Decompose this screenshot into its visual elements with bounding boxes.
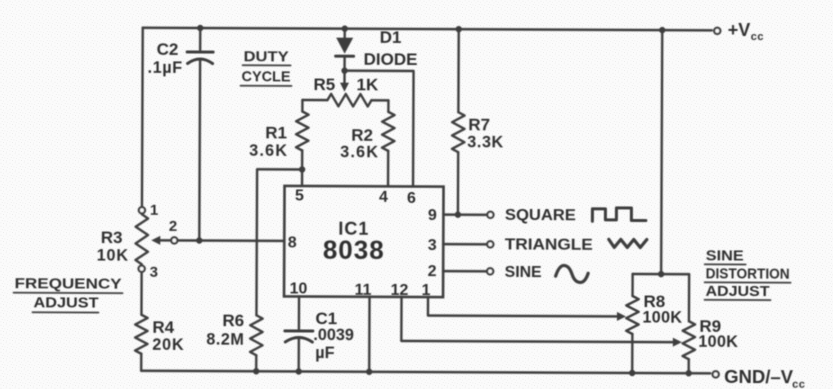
svg-text:cc: cc: [751, 31, 764, 43]
svg-text:1: 1: [422, 282, 431, 299]
svg-text:DUTY: DUTY: [244, 48, 289, 65]
junction D1 / pin-6 wire: [341, 67, 347, 73]
terminal TRIANGLE output: [487, 241, 493, 247]
svg-text:R6: R6: [222, 311, 244, 330]
junction R8 / GND rail: [629, 370, 635, 376]
wire pin 10 to C1: [298, 296, 301, 329]
svg-text:5: 5: [295, 187, 304, 204]
terminal R3 pin 3: [139, 266, 145, 272]
svg-text:8038: 8038: [323, 235, 385, 265]
wire pin 2 to SINE terminal: [443, 270, 486, 273]
svg-text:R4: R4: [152, 318, 174, 337]
svg-text:R5: R5: [313, 75, 335, 94]
wire D1 node to pin 6: [344, 71, 414, 186]
wire C1 to GND rail: [297, 338, 300, 371]
svg-text:ADJUST: ADJUST: [706, 284, 770, 300]
resistor R7: [452, 112, 465, 152]
waveform icon triangle: [609, 239, 647, 247]
svg-text:1K: 1K: [356, 75, 379, 94]
svg-text:CYCLE: CYCLE: [241, 68, 290, 85]
svg-text:2: 2: [169, 218, 177, 235]
svg-text:3: 3: [428, 237, 437, 254]
junction C2 / pin-8 wire: [196, 237, 202, 243]
svg-text:+V: +V: [728, 20, 751, 40]
svg-text:R1: R1: [265, 123, 287, 142]
svg-text:SQUARE: SQUARE: [505, 207, 576, 224]
svg-text:12: 12: [391, 282, 409, 299]
wire pin 9 to SQUARE terminal: [443, 213, 486, 216]
terminal +Vcc: [714, 28, 720, 34]
svg-text:SINE: SINE: [505, 264, 542, 281]
junction C1 / GND rail: [295, 368, 301, 374]
wire R2 to pin 4: [387, 151, 390, 186]
svg-text:10K: 10K: [97, 247, 129, 265]
junction R9 / GND rail: [685, 370, 691, 376]
junction top rail / C2: [197, 25, 203, 31]
svg-text:100K: 100K: [642, 309, 682, 327]
svg-text:GND/–V: GND/–V: [724, 366, 794, 387]
wiper arrow R5: [343, 71, 345, 83]
terminal R3 pin 2: [171, 237, 177, 243]
wire R7 to pin-9 wire: [457, 152, 460, 214]
wiper arrow R8: [617, 312, 626, 321]
junction top rail / R7: [456, 26, 462, 32]
svg-text:.1µF: .1µF: [148, 59, 183, 77]
wire C2 to R3 wiper node: [198, 60, 201, 241]
resistor R9: [683, 321, 696, 359]
svg-text:100K: 100K: [698, 333, 738, 351]
wiper arrow R9: [673, 338, 682, 347]
wire R4 to GND rail: [140, 354, 142, 371]
wire bar to R8: [631, 274, 633, 296]
svg-text:cc: cc: [792, 379, 805, 389]
svg-text:µF: µF: [315, 344, 334, 362]
svg-text:R2: R2: [351, 126, 373, 145]
junction right rail / R8 R9 bar: [658, 271, 664, 277]
waveform icon square: [592, 208, 646, 222]
wire node to R6: [256, 169, 302, 315]
svg-text:8: 8: [288, 234, 297, 251]
terminal SQUARE output: [487, 212, 493, 218]
wire R8-R9 top bar: [633, 273, 689, 276]
wire node to pin 5: [301, 169, 303, 185]
resistor R3: [135, 214, 148, 264]
wire R9 to GND rail: [687, 359, 689, 373]
terminal R3 pin 1: [139, 207, 145, 213]
wire R1 to pin5 node: [301, 150, 303, 169]
capacitor C2: [187, 50, 213, 53]
capacitor C1: [285, 329, 313, 332]
wire right rail: [661, 30, 662, 274]
junction R6 / GND rail: [253, 368, 259, 374]
wire pin 11 to GND rail: [368, 297, 371, 372]
junction pin 11 / GND rail: [366, 369, 372, 375]
wire left rail: [141, 28, 144, 206]
svg-text:D1: D1: [380, 28, 402, 47]
diode D1: [336, 38, 353, 54]
resistor R1: [296, 111, 309, 150]
svg-text:R3: R3: [101, 228, 123, 247]
svg-text:9: 9: [428, 207, 437, 224]
wire R5 left to R1: [301, 100, 303, 111]
op-amp IC1 8038 body: [284, 186, 443, 297]
svg-text:3.6K: 3.6K: [340, 143, 379, 161]
resistor R8: [626, 296, 639, 334]
wire R3 pin3 to R4: [140, 273, 143, 315]
svg-text:20K: 20K: [152, 336, 184, 354]
wire top rail to D1 anode: [344, 29, 346, 38]
waveform icon sine: [556, 265, 589, 282]
junction top rail / D1: [342, 25, 348, 31]
wire top rail to C2: [199, 28, 201, 50]
svg-text:3.6K: 3.6K: [249, 142, 288, 160]
terminal SINE output: [487, 268, 493, 274]
wire pin 1 to R8 wiper: [428, 297, 617, 316]
junction R7 / pin 9 wire: [455, 211, 461, 217]
terminal GND/-Vcc: [713, 371, 719, 377]
wire R5 right to R2: [387, 100, 389, 111]
svg-text:TRIANGLE: TRIANGLE: [505, 236, 593, 253]
wire bottom GND rail: [141, 371, 710, 374]
svg-text:R7: R7: [468, 115, 490, 134]
resistor R5: [302, 99, 327, 102]
svg-text:3: 3: [150, 264, 158, 281]
junction R1 / R6 / pin 5: [299, 166, 305, 172]
svg-text:DISTORTION: DISTORTION: [706, 266, 790, 282]
svg-text:SINE: SINE: [706, 248, 744, 264]
resistor R4: [135, 315, 148, 354]
wire +Vcc top rail: [143, 28, 712, 31]
wire top rail to R7: [457, 29, 460, 112]
junction top rail / right rail: [659, 27, 665, 33]
svg-text:4: 4: [379, 189, 388, 206]
wire pin 3 to TRIANGLE terminal: [443, 243, 486, 246]
svg-text:3.3K: 3.3K: [467, 133, 504, 151]
wire R6 to GND rail: [255, 355, 257, 371]
svg-text:6: 6: [407, 190, 416, 207]
svg-text:2: 2: [428, 263, 437, 280]
svg-text:ADJUST: ADJUST: [33, 295, 98, 311]
wire pin 12 to R9 wiper: [401, 297, 672, 342]
svg-text:10: 10: [290, 280, 308, 297]
svg-text:1: 1: [150, 202, 158, 219]
svg-text:8.2M: 8.2M: [206, 331, 244, 349]
svg-text:C2: C2: [157, 40, 179, 59]
resistor R6: [250, 315, 263, 355]
wiper arrow R3: [151, 236, 160, 245]
svg-text:.0039: .0039: [313, 326, 354, 344]
wire D1 cathode to node: [343, 57, 345, 71]
svg-text:DIODE: DIODE: [364, 50, 418, 69]
wire bar to R9: [688, 274, 691, 321]
wire R8 to GND rail: [631, 334, 634, 373]
svg-text:FREQUENCY: FREQUENCY: [15, 276, 122, 292]
wire R3 wiper to pin 8: [178, 239, 284, 242]
resistor R2: [382, 112, 395, 151]
